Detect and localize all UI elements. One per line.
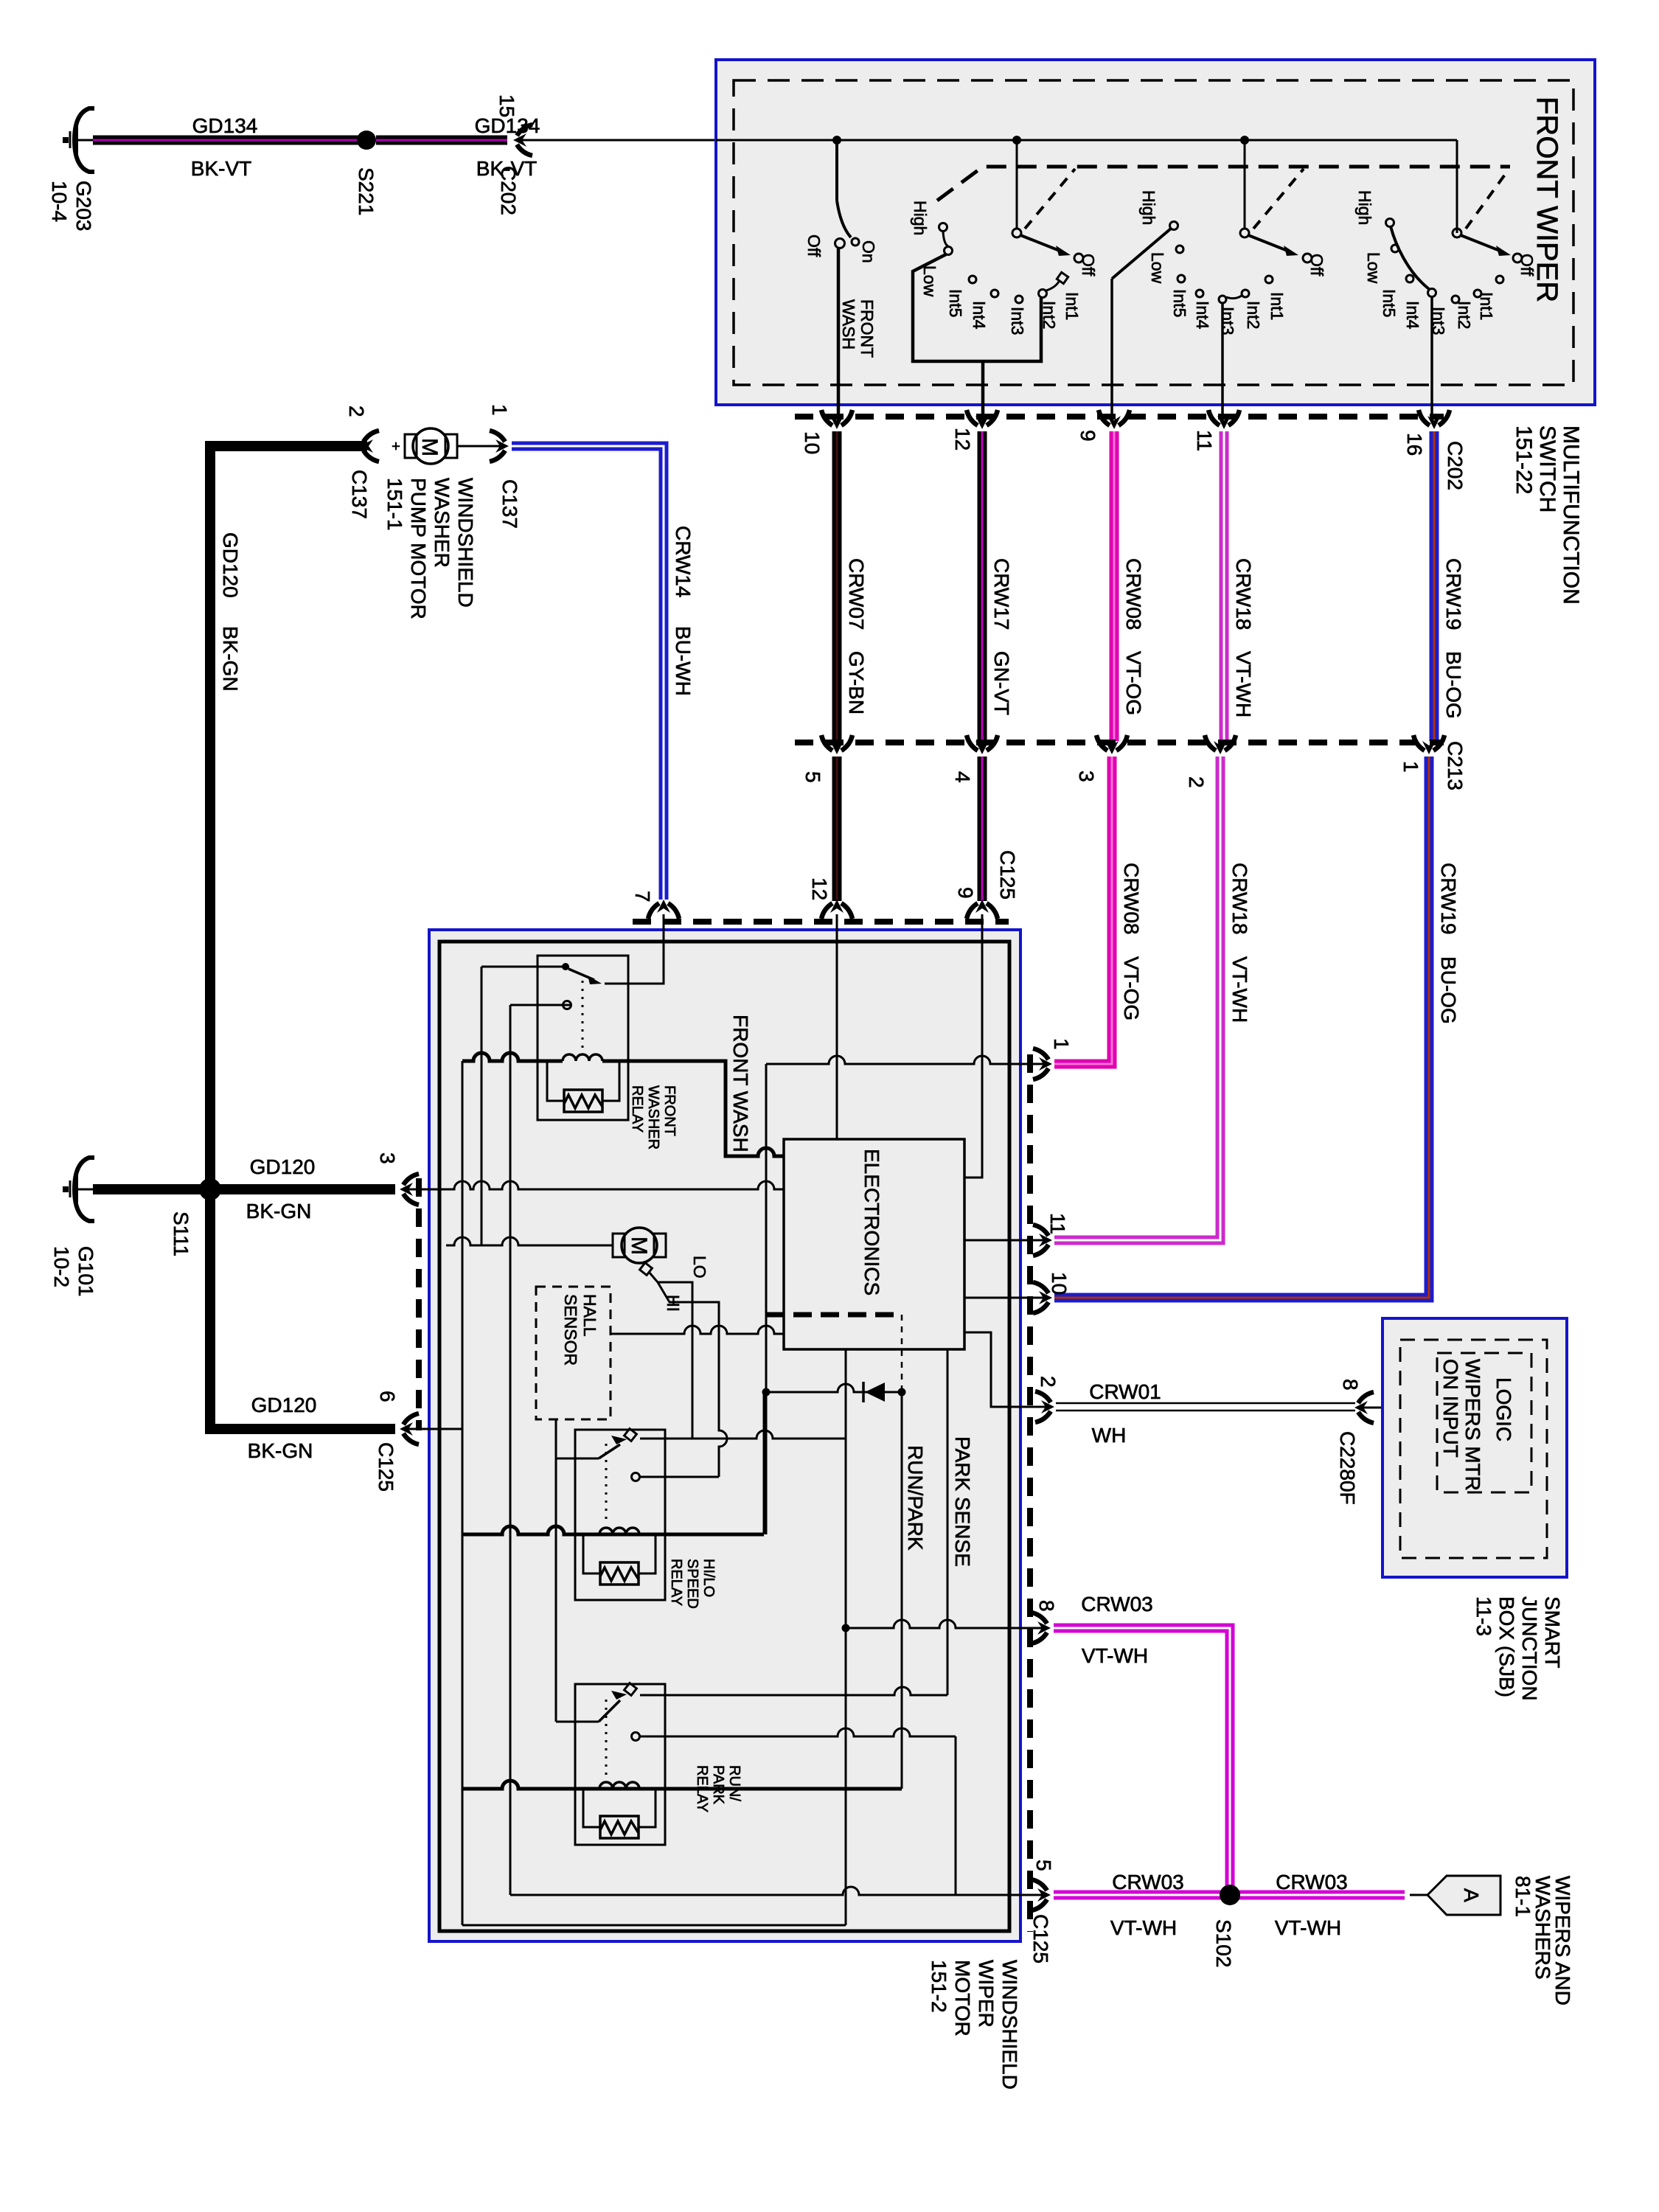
wire electronics to pin 2 <box>964 1332 1047 1407</box>
svg-text:C137: C137 <box>498 479 521 529</box>
wire run/park NO to pin 5 <box>955 1736 957 1895</box>
svg-text:VT-WH: VT-WH <box>1228 956 1251 1023</box>
svg-text:Int4: Int4 <box>1193 301 1212 330</box>
wire motor HI path <box>658 1282 727 1477</box>
washer relay resistor <box>564 1090 602 1112</box>
wiper arm (rotary 2) to pin 9 drop <box>1112 229 1171 279</box>
svg-text:High: High <box>1355 190 1374 225</box>
svg-text:11: 11 <box>1046 1213 1069 1234</box>
front wiper inner dashed border <box>734 80 1573 385</box>
wire pin 1 feed horizontal <box>766 1056 1046 1064</box>
hi/lo relay coil <box>599 1528 639 1534</box>
svg-text:CRW19: CRW19 <box>1442 558 1465 630</box>
svg-text:Int4: Int4 <box>970 301 989 330</box>
wire hi/lo relay coil rail <box>462 1526 764 1534</box>
arm park switch B <box>1248 235 1291 252</box>
wire CRW17 GN-VT upper <box>978 431 987 741</box>
wiper staple (rotary 1) <box>913 254 1041 361</box>
wire hi/lo NO contact <box>640 1476 719 1478</box>
wiper motor bracket right <box>654 1234 666 1257</box>
C213 pin 1 arrow <box>1413 735 1444 754</box>
wire pin 11 to electronics <box>964 1239 1046 1242</box>
wire to wash switch <box>835 140 838 201</box>
wire CRW18 VT-WH lower <box>1054 757 1220 1240</box>
C202 pin 11 arrow <box>1208 410 1239 429</box>
wire CRW17 GN-VT lower <box>978 757 987 901</box>
svg-text:Off: Off <box>804 234 824 257</box>
svg-text:WH: WH <box>1092 1424 1127 1447</box>
contact Int4 (rotary 3) <box>1428 289 1436 297</box>
C2280F pin 8 arrow <box>1354 1392 1374 1423</box>
svg-text:Int5: Int5 <box>1380 289 1399 317</box>
wire hi/lo coil to contact run <box>763 1390 765 1534</box>
contact Off (park C) <box>1513 254 1522 262</box>
wire relay arm bus <box>555 1419 557 1722</box>
svg-text:Off: Off <box>1517 254 1537 276</box>
svg-text:Low: Low <box>920 265 939 297</box>
C213 pin 5 arrow <box>821 735 852 754</box>
arm Int2-Int1 (rotary 1) <box>1046 282 1059 291</box>
wire front wash bus to electronics <box>602 1061 784 1156</box>
wire to park switch A <box>1016 140 1018 229</box>
svg-text:CRW07: CRW07 <box>845 558 868 630</box>
wire relay common to motor line <box>481 967 483 1245</box>
wire resistor left <box>547 1061 564 1101</box>
switch wash arm <box>837 201 851 237</box>
wire into front wiper switch <box>518 139 716 142</box>
svg-text:GN-VT: GN-VT <box>990 651 1013 715</box>
svg-text:HI: HI <box>664 1295 683 1312</box>
svg-text:Int4: Int4 <box>1403 301 1422 330</box>
contact Int4 (rotary 1) <box>991 290 998 297</box>
wire run/park NO run <box>640 1728 956 1736</box>
svg-text:16: 16 <box>1403 433 1426 456</box>
svg-text:1: 1 <box>488 404 511 416</box>
svg-text:GD120: GD120 <box>219 532 242 598</box>
svg-text:3: 3 <box>1075 771 1098 782</box>
wire into SJB logic <box>1362 1407 1437 1409</box>
C213 pin 3 arrow <box>1096 735 1127 754</box>
pivot park switch A <box>1012 229 1021 237</box>
connector C202 pin 15 arrow <box>513 125 532 156</box>
C213 pin 4 arrow <box>967 735 998 754</box>
arm High-Low (rotary 1) <box>943 232 948 246</box>
svg-text:9: 9 <box>1077 430 1099 442</box>
wire rotary 1 to pin 12 <box>981 361 985 422</box>
svg-text:2: 2 <box>345 406 368 417</box>
wire GD120 BK-GN to pin 3 <box>210 1184 395 1194</box>
wire motor armature feed <box>446 1237 613 1245</box>
svg-text:Off: Off <box>1307 254 1326 276</box>
svg-text:CRW18: CRW18 <box>1232 558 1255 630</box>
svg-text:G20310-4: G20310-4 <box>48 181 95 232</box>
C125 pin 2 arrow <box>1035 1391 1054 1422</box>
wire run/park resistor right <box>639 1789 655 1827</box>
wire to off-page arrow <box>1410 1894 1427 1896</box>
contact Int3 (rotary 3) <box>1452 296 1459 303</box>
washer relay NO contact <box>563 1001 571 1009</box>
contact On <box>852 238 859 246</box>
svg-text:Int1: Int1 <box>1477 292 1496 320</box>
wire motor LO path <box>649 1272 692 1439</box>
svg-text:11: 11 <box>1193 430 1216 451</box>
wire run/park coil rail <box>462 1781 902 1789</box>
C125 pin 6 arrow <box>400 1413 419 1444</box>
C125 pin 12 arrow <box>821 900 852 919</box>
wire to run/park relay arm <box>556 1721 599 1723</box>
wire to park switch B <box>1244 140 1246 229</box>
wire CRW19 BU-OG lower <box>1054 757 1429 1298</box>
washer relay arm <box>568 969 594 980</box>
svg-text:BK-GN: BK-GN <box>248 1439 313 1462</box>
front wiper switch box <box>716 60 1595 405</box>
svg-text:+: + <box>392 439 400 455</box>
wire GD134 BK-VT segment 1 <box>93 136 361 145</box>
SJB logic dashed box <box>1437 1353 1531 1492</box>
svg-text:ELECTRONICS: ELECTRONICS <box>860 1149 883 1295</box>
wire ground to S111 <box>93 1184 206 1194</box>
C202 pin 10 arrow <box>821 410 852 429</box>
C202 pin 9 arrow <box>1099 410 1130 429</box>
svg-text:Int2: Int2 <box>1040 301 1059 329</box>
arm park switch C <box>1461 235 1503 252</box>
svg-text:Low: Low <box>1364 252 1383 284</box>
connector C202 dashed line <box>795 414 1444 420</box>
node bus junction 2 <box>1012 136 1021 145</box>
electronics dashed internal bus <box>766 1312 902 1318</box>
svg-text:8: 8 <box>1339 1379 1362 1391</box>
washer motor bracket right <box>445 434 457 458</box>
linkage link to park A <box>1025 169 1075 229</box>
svg-text:5: 5 <box>801 771 824 783</box>
wire CRW08 VT-OG upper <box>1110 431 1119 741</box>
contact Int5 (rotary 1) <box>969 276 976 283</box>
contact Low (rotary 3) <box>1391 245 1399 252</box>
run/park relay resistor <box>600 1816 639 1838</box>
wiper motor inner border <box>439 942 1009 1931</box>
wire pin 8 run <box>846 1620 1046 1628</box>
electronics module box <box>784 1139 964 1349</box>
wire electronics to bottom rail <box>845 1349 847 1925</box>
wire run/park resistor left <box>583 1789 600 1827</box>
run/park relay coil <box>599 1782 639 1789</box>
svg-text:CRW19: CRW19 <box>1437 863 1460 935</box>
diode cathode bar <box>862 1382 865 1402</box>
svg-text:12: 12 <box>808 877 831 900</box>
contact Int1 (rotary 2) <box>1265 276 1273 283</box>
wire pin 10 to electronics <box>964 1297 1046 1299</box>
wire GD134 BK-VT segment 2 <box>376 136 507 145</box>
wire CRW01 WH <box>1056 1402 1355 1405</box>
svg-text:RUN/PARK: RUN/PARK <box>904 1445 927 1551</box>
C213 pin 2 arrow <box>1205 735 1236 754</box>
contact Int2 (rotary 1) <box>1039 290 1047 298</box>
node bus junction 3 <box>1240 136 1249 145</box>
wire front wash bus left <box>462 1053 563 1061</box>
wire pin 12 to electronics <box>836 914 838 1139</box>
svg-text:CRW18: CRW18 <box>1228 863 1251 935</box>
contact Low (rotary 1) <box>945 247 953 255</box>
contact Int4 (rotary 2) <box>1196 290 1203 297</box>
splice S111 <box>199 1178 221 1200</box>
svg-text:Int2: Int2 <box>1455 301 1474 329</box>
contact Low (rotary 2) <box>1176 246 1183 253</box>
hi/lo relay dotted link <box>605 1444 608 1523</box>
svg-text:CRW03: CRW03 <box>1276 1871 1348 1893</box>
wire bus inside switch <box>716 139 1457 142</box>
wire wash switch to pin 10 <box>837 248 841 422</box>
svg-text:FRONTWASH: FRONTWASH <box>839 299 877 358</box>
C125 pin 9 arrow <box>967 900 998 919</box>
svg-text:S221: S221 <box>355 167 378 215</box>
svg-text:GD134: GD134 <box>192 114 258 137</box>
smart junction box <box>1382 1318 1567 1577</box>
C202 pin 12 arrow <box>967 410 998 429</box>
svg-text:GD120: GD120 <box>251 1394 317 1416</box>
wire CRW07 GY-BN lower <box>832 757 842 901</box>
wire Int3 to pin 11 <box>1221 303 1224 422</box>
svg-text:BK-GN: BK-GN <box>219 626 242 692</box>
svg-text:WINDSHIELDWASHERPUMP MOTOR151-: WINDSHIELDWASHERPUMP MOTOR151-1 <box>383 478 477 619</box>
svg-text:LO: LO <box>690 1256 709 1279</box>
washer pump motor M <box>413 428 448 464</box>
wire diode to run/park coil <box>901 1392 903 1789</box>
svg-text:CRW17: CRW17 <box>990 558 1013 630</box>
C125 pin 1 arrow <box>1033 1048 1052 1079</box>
hi/lo relay resistor <box>600 1562 639 1585</box>
svg-text:WIPERS ANDWASHERS81-1: WIPERS ANDWASHERS81-1 <box>1512 1876 1574 2006</box>
connector C125 top dashed line <box>633 919 1009 925</box>
svg-text:C137: C137 <box>348 470 371 519</box>
wire park sense vertical <box>947 1349 949 1695</box>
svg-text:S102: S102 <box>1212 1919 1235 1967</box>
connector C125 right dashed line <box>1027 1054 1033 1932</box>
contact Off (wash) <box>835 239 845 248</box>
svg-text:C125: C125 <box>1029 1914 1052 1964</box>
pivot park switch C <box>1453 229 1461 237</box>
svg-text:2: 2 <box>1037 1376 1060 1388</box>
wire ground bus vertical A <box>462 1061 464 1925</box>
pivot park switch B <box>1240 229 1249 237</box>
svg-text:VT-WH: VT-WH <box>1232 651 1255 717</box>
svg-text:C2280F: C2280F <box>1336 1431 1359 1505</box>
contact Int2 (rotary 3) <box>1474 290 1481 297</box>
svg-text:BK-GN: BK-GN <box>246 1200 312 1222</box>
contact Int3 (rotary 1) <box>1015 296 1023 303</box>
svg-text:BU-WH: BU-WH <box>672 626 695 696</box>
wire pin 1 feed vertical <box>765 1064 768 1534</box>
contact Off (park A) <box>1074 254 1083 262</box>
svg-text:1: 1 <box>1399 761 1422 773</box>
wire pin 5 run <box>510 1887 1043 1895</box>
svg-text:High: High <box>1139 190 1158 225</box>
svg-text:VT-WH: VT-WH <box>1110 1916 1177 1939</box>
C125 pin 11 arrow <box>1033 1225 1052 1256</box>
svg-text:FRONT WASH: FRONT WASH <box>729 1015 752 1152</box>
svg-text:VT-WH: VT-WH <box>1275 1916 1341 1939</box>
arm Int3-Int2 (rotary 2) <box>1226 296 1242 299</box>
svg-text:2: 2 <box>1185 776 1208 788</box>
contact Int5 (rotary 2) <box>1178 275 1185 282</box>
contact High (rotary 2) <box>1170 222 1178 230</box>
wire CRW03 VT-WH pin 5 to A <box>1054 1891 1405 1900</box>
connector C213 dashed line <box>795 740 1444 745</box>
connector C137 pin 2 arrow <box>360 431 379 462</box>
svg-text:BU-OG: BU-OG <box>1442 651 1465 719</box>
svg-text:3: 3 <box>376 1152 399 1164</box>
C125 pin 3 arrow <box>400 1174 419 1205</box>
run/park relay arm <box>599 1700 620 1722</box>
node diode left <box>762 1388 771 1397</box>
wire relay NO left <box>510 1004 571 1006</box>
svg-text:1: 1 <box>1050 1038 1073 1050</box>
svg-text:GD120: GD120 <box>250 1155 316 1178</box>
hi/lo relay NO contact <box>632 1473 640 1481</box>
svg-text:VT-OG: VT-OG <box>1122 651 1145 715</box>
svg-text:M: M <box>627 1237 651 1255</box>
contact Int1 (rotary 3) <box>1496 276 1503 283</box>
wire to hi/lo relay arm <box>556 1458 599 1460</box>
wire CRW08 VT-OG lower <box>1054 757 1112 1064</box>
contact Int3 (rotary 2) <box>1219 296 1226 303</box>
wire hi/lo contact to electronics rail <box>640 1430 846 1439</box>
ground G101 <box>63 1158 94 1221</box>
wire pin 7 to washer relay arm <box>605 914 664 984</box>
ground G203 <box>63 108 94 172</box>
wire hi/lo resistor right <box>639 1534 655 1573</box>
wire hall sensor to electronics <box>611 1326 784 1334</box>
svg-text:6: 6 <box>376 1391 399 1402</box>
C125 pin 10 arrow <box>1033 1282 1052 1313</box>
node bus junction 1 <box>832 136 841 145</box>
svg-text:Low: Low <box>1148 252 1167 284</box>
svg-text:Int5: Int5 <box>1170 289 1189 317</box>
contact High (rotary 3) <box>1386 219 1394 227</box>
svg-text:Off: Off <box>1079 254 1098 276</box>
svg-text:Int5: Int5 <box>946 289 965 317</box>
contact High (rotary 1) <box>939 223 947 232</box>
svg-text:A: A <box>1460 1888 1483 1902</box>
wire relay NO to pin 5 run <box>509 1005 512 1895</box>
mechanical linkage dashed <box>937 167 1510 201</box>
contact Int5 (rotary 3) <box>1406 275 1413 282</box>
wire GD120 BK-GN from pump <box>210 446 367 1180</box>
svg-text:Int3: Int3 <box>1008 307 1027 335</box>
svg-text:MULTIFUNCTIONSWITCH151-22: MULTIFUNCTIONSWITCH151-22 <box>1512 425 1583 605</box>
run/park dotted link <box>605 1700 608 1777</box>
svg-text:BU-OG: BU-OG <box>1437 956 1460 1024</box>
svg-text:VT-WH: VT-WH <box>1082 1644 1148 1667</box>
svg-text:Int2: Int2 <box>1244 301 1263 329</box>
wire rotary 3 to pin 16 <box>1430 296 1433 422</box>
wire pin 6 stub <box>408 1428 462 1430</box>
wire run/park contact to park sense <box>640 1687 947 1695</box>
wiper motor M <box>622 1228 657 1263</box>
connector C137 pin 1 arrow <box>490 431 509 462</box>
C202 pin 16 arrow <box>1419 410 1450 429</box>
svg-text:Int1: Int1 <box>1062 292 1082 320</box>
svg-text:C125: C125 <box>375 1442 397 1492</box>
wire diode row <box>766 1384 902 1392</box>
washer relay common <box>562 963 569 970</box>
wiper motor bracket left <box>613 1234 625 1257</box>
wiper motor box <box>429 930 1020 1941</box>
run/park relay outline <box>575 1684 665 1845</box>
svg-text:CRW01: CRW01 <box>1089 1380 1161 1403</box>
svg-text:High: High <box>911 201 930 235</box>
svg-text:GY-BN: GY-BN <box>845 651 868 714</box>
node pin 8 takeoff <box>842 1624 850 1632</box>
wire rotary 2 to pin 9 <box>1110 279 1113 422</box>
svg-text:CRW08: CRW08 <box>1120 863 1143 935</box>
linkage link to park C <box>1466 170 1509 229</box>
dashed link to diode <box>901 1315 903 1392</box>
hi/lo speed relay outline <box>575 1430 665 1600</box>
svg-text:LOGIC: LOGIC <box>1492 1377 1515 1441</box>
hall sensor dashed box <box>536 1287 611 1419</box>
node diode right <box>898 1388 906 1397</box>
washer relay dotted link <box>582 981 584 1051</box>
wire pin 9 to electronics <box>964 914 982 1178</box>
svg-text:C202: C202 <box>497 166 520 215</box>
svg-text:8: 8 <box>1035 1600 1058 1612</box>
wiper arm (rotary 3) <box>1391 226 1429 289</box>
washer relay coil <box>563 1054 602 1061</box>
svg-text:15: 15 <box>495 94 518 117</box>
front washer relay outline <box>538 956 628 1120</box>
svg-text:M: M <box>417 438 442 456</box>
run/park NO contact <box>632 1733 640 1741</box>
svg-text:VT-OG: VT-OG <box>1120 956 1143 1020</box>
svg-text:On: On <box>859 240 878 263</box>
wire CRW07 GY-BN upper <box>832 431 842 741</box>
svg-text:12: 12 <box>951 428 974 451</box>
hi/lo relay arm <box>599 1444 620 1458</box>
contact Off (park B) <box>1303 254 1312 262</box>
wire CRW18 VT-WH upper <box>1220 431 1229 741</box>
svg-text:4: 4 <box>951 771 974 783</box>
svg-text:PARK SENSE: PARK SENSE <box>951 1436 974 1567</box>
wire bottom rail <box>462 1924 846 1927</box>
svg-text:CRW03: CRW03 <box>1112 1871 1184 1893</box>
wire CRW19 BU-OG upper <box>1430 431 1439 741</box>
wire bus drop to park switch C <box>1456 140 1458 233</box>
washer motor bracket left <box>405 434 417 458</box>
svg-text:Int3: Int3 <box>1218 307 1237 335</box>
connector C125 left dashed line <box>416 1178 422 1430</box>
svg-text:7: 7 <box>631 891 654 902</box>
svg-text:G10110-2: G10110-2 <box>50 1246 97 1297</box>
svg-text:9: 9 <box>954 887 977 899</box>
C125 pin 8 arrow <box>1032 1613 1051 1644</box>
linkage link to park B <box>1253 169 1304 229</box>
splice S221 <box>357 131 376 150</box>
C125 pin 5 arrow <box>1032 1879 1051 1910</box>
svg-text:10: 10 <box>801 431 824 454</box>
svg-text:BK-VT: BK-VT <box>191 157 251 180</box>
contact Int2 (rotary 2) <box>1242 290 1249 297</box>
wire GD120 BK-GN to pin 6 <box>210 1184 395 1429</box>
off-page connector A <box>1427 1876 1500 1915</box>
wire CRW14 BU-WH <box>512 446 664 900</box>
svg-text:Int1: Int1 <box>1267 292 1287 320</box>
arm park switch A <box>1020 235 1063 252</box>
svg-text:10: 10 <box>1048 1272 1071 1295</box>
wire pump to pin 1 <box>457 445 501 448</box>
svg-text:C202: C202 <box>1444 441 1467 490</box>
svg-text:C213: C213 <box>1444 741 1467 790</box>
svg-text:CRW14: CRW14 <box>672 526 695 598</box>
